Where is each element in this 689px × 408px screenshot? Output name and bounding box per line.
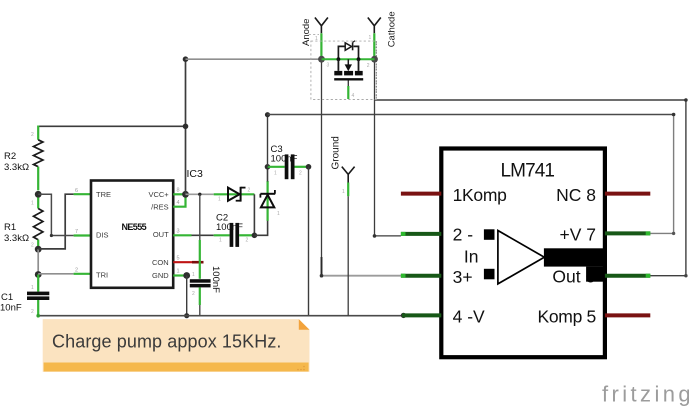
svg-text:4 -V: 4 -V — [453, 307, 485, 327]
node bendpoint top — [183, 56, 189, 62]
svg-text:2 -: 2 - — [453, 225, 474, 245]
svg-text:R1: R1 — [4, 222, 16, 233]
wire +V net (cathode to +V7) — [375, 100, 686, 276]
U1 pin 1 leg — [401, 192, 441, 196]
wire DIS elbow (R2/R1 junction to DIS pin) — [38, 194, 73, 235]
U1 pin 3 leg — [401, 274, 441, 278]
node junction R2/DIS — [35, 191, 42, 198]
node junction C2/D1/D2 — [252, 233, 258, 239]
wire top row to MOSFET pin 3 — [186, 58, 322, 60]
svg-text:IC3: IC3 — [187, 168, 204, 180]
svg-text:VCC+: VCC+ — [148, 190, 169, 199]
NE555 pin 4 leg /RES — [173, 198, 185, 207]
capacitor C3 100nF — [268, 144, 309, 179]
svg-text:1: 1 — [369, 35, 372, 41]
diode D2 (vertical) — [260, 181, 280, 221]
wire ground rail (bottom) — [38, 315, 403, 317]
NE555 pin 6 leg TRE — [74, 193, 91, 195]
svg-text:TRE: TRE — [96, 190, 111, 199]
node junction C3 right — [306, 164, 312, 170]
svg-text:NE555: NE555 — [122, 222, 147, 232]
svg-text:GND: GND — [152, 271, 169, 280]
NE555 pin 8 leg VCC+ — [173, 193, 185, 195]
svg-text:1: 1 — [342, 189, 345, 195]
svg-text:In: In — [464, 247, 479, 267]
svg-text:4: 4 — [352, 93, 355, 99]
node junction GND rail — [184, 313, 189, 318]
capacitor C2 100nF — [214, 213, 255, 247]
note sticky — [43, 319, 310, 372]
MOSFET Q1 dashed outline — [309, 35, 377, 100]
svg-text:C1: C1 — [1, 292, 13, 303]
node bendpoint — [672, 113, 676, 117]
svg-text:1: 1 — [219, 238, 222, 244]
wire GND down to rail — [186, 276, 188, 316]
svg-text:R2: R2 — [4, 151, 16, 162]
svg-text:4: 4 — [177, 200, 180, 206]
op-amp input stubs — [484, 229, 495, 240]
node junction rail / -V pin — [401, 313, 406, 318]
svg-text:LM741: LM741 — [501, 161, 555, 182]
svg-text:10nF: 10nF — [0, 303, 22, 314]
svg-text:2: 2 — [31, 243, 34, 249]
svg-text:fritzing: fritzing — [602, 382, 689, 407]
node junction GND pin — [183, 272, 190, 279]
wire anode vertical to +In pin — [321, 59, 323, 276]
U1 pin 7 leg — [605, 231, 650, 235]
svg-text:1Komp: 1Komp — [453, 185, 507, 205]
wire output node vertical (C3 node up to OUT net) — [267, 115, 269, 167]
svg-text:2: 2 — [248, 188, 251, 194]
svg-text:2: 2 — [31, 132, 34, 138]
svg-text:Cathode: Cathode — [387, 11, 398, 47]
node junction VCC+//RES — [182, 191, 189, 198]
svg-text:3.3kΩ: 3.3kΩ — [4, 162, 29, 173]
resistor R1 — [4, 198, 43, 249]
U1 pin 8 leg — [605, 192, 650, 196]
svg-text:1: 1 — [31, 201, 34, 207]
svg-text:100nF: 100nF — [210, 266, 221, 293]
svg-text:5: 5 — [177, 256, 180, 262]
wire D2 cathode up to C3 node — [267, 167, 269, 182]
U1 pin 6 leg — [605, 274, 650, 278]
decoupling capacitor 100nF (VCC to GND) — [190, 194, 221, 315]
node junction rail/vertical — [183, 124, 189, 130]
resistor R2 — [4, 132, 43, 207]
wire OUT net horizontal to op-amp Out pin — [268, 114, 674, 116]
svg-text:100nF: 100nF — [271, 154, 298, 165]
NE555 pin 2 leg TRI — [74, 273, 91, 275]
svg-text:Komp 5: Komp 5 — [537, 307, 596, 327]
node bendpoint rail left — [36, 314, 40, 318]
node junction TRI / C1 — [35, 271, 42, 278]
op-amp U1 triangle — [498, 231, 544, 284]
wire OUT to C2 — [192, 234, 214, 236]
svg-text:TRI: TRI — [96, 270, 108, 279]
svg-text:1: 1 — [177, 269, 180, 275]
node junction R1 bottom / TRE — [35, 246, 42, 253]
svg-text:Anode: Anode — [301, 19, 312, 46]
antenna J2 Cathode — [368, 11, 398, 56]
svg-text:6: 6 — [75, 188, 78, 194]
wire VCC vertical (to top rail and MOSFET row) — [185, 59, 187, 194]
node bendpoint 100nF tap — [198, 193, 201, 196]
svg-text:Ground: Ground — [331, 136, 342, 169]
svg-text:1: 1 — [277, 211, 280, 217]
U1 pin 2 leg — [401, 232, 441, 236]
wire ground antenna down to rail — [347, 196, 349, 316]
NE555 pin 3 leg OUT — [173, 234, 191, 236]
wire D1 cathode down to C2 node — [253, 194, 255, 235]
wire top-left VCC rail — [38, 126, 185, 140]
svg-text:2: 2 — [367, 63, 370, 69]
wire VCC+ to diode D1 — [186, 193, 214, 195]
node bendpoint +V — [684, 98, 688, 102]
svg-text:Charge pump appox 15KHz.: Charge pump appox 15KHz. — [52, 332, 282, 352]
svg-text:2: 2 — [299, 171, 302, 177]
U1 pin 4 leg — [402, 313, 441, 317]
antenna J3 Ground — [331, 136, 355, 196]
wire TRE elbow (R1 bottom to TRE pin) — [38, 194, 73, 249]
svg-text:2: 2 — [192, 291, 195, 297]
svg-text:2: 2 — [246, 238, 249, 244]
svg-text:1: 1 — [274, 171, 277, 177]
NE555 pin 7 leg DIS — [74, 234, 91, 236]
svg-text:/RES: /RES — [151, 203, 169, 212]
svg-text:1: 1 — [192, 272, 195, 278]
svg-text:1: 1 — [31, 285, 34, 291]
svg-text:2: 2 — [75, 268, 78, 274]
svg-text:NC 8: NC 8 — [556, 185, 596, 205]
svg-text:1: 1 — [218, 197, 221, 203]
svg-text:3+: 3+ — [453, 267, 473, 287]
op-amp U1 LM741 box — [441, 149, 605, 358]
diode D1 — [218, 187, 251, 203]
svg-text:3.3kΩ: 3.3kΩ — [4, 233, 29, 244]
svg-text:CON: CON — [152, 258, 169, 267]
node junction MOSFET pin3 (anode) — [318, 56, 325, 63]
wire cathode vertical to -In pin — [375, 59, 401, 236]
svg-text:+V 7: +V 7 — [560, 225, 597, 245]
svg-text:100nF: 100nF — [216, 222, 243, 233]
wire C2 node to D2 anode — [254, 220, 267, 235]
node junction MOSFET pin2 (cathode) — [371, 56, 378, 63]
diode D1 leg wire — [214, 193, 255, 195]
svg-text:OUT: OUT — [153, 230, 169, 239]
svg-text:3: 3 — [177, 229, 180, 235]
svg-text:DIS: DIS — [96, 231, 109, 240]
wire TRI (junction to TRI pin) — [38, 273, 73, 275]
svg-text:3: 3 — [327, 63, 330, 69]
wire C3 right down to ground rail — [308, 167, 310, 316]
node junction OUT net — [265, 112, 270, 117]
antenna J1 Anode — [301, 18, 328, 57]
wire R1-bottom to TRI node — [37, 249, 39, 274]
IC NE555 IC3 — [91, 181, 173, 288]
svg-text:8: 8 — [177, 188, 180, 194]
capacitor C1 10nF — [0, 275, 49, 317]
svg-text:2: 2 — [31, 309, 34, 315]
op-amp output blob — [544, 248, 605, 266]
node junction C3 left — [265, 164, 271, 170]
NE555 pin 5 leg CON (red, unconnected) — [173, 261, 192, 263]
MOSFET Q1 internal — [322, 41, 375, 99]
U1 pin 5 leg — [605, 313, 650, 317]
NE555 pin 1 leg GND — [173, 274, 187, 276]
svg-text:7: 7 — [75, 229, 78, 235]
